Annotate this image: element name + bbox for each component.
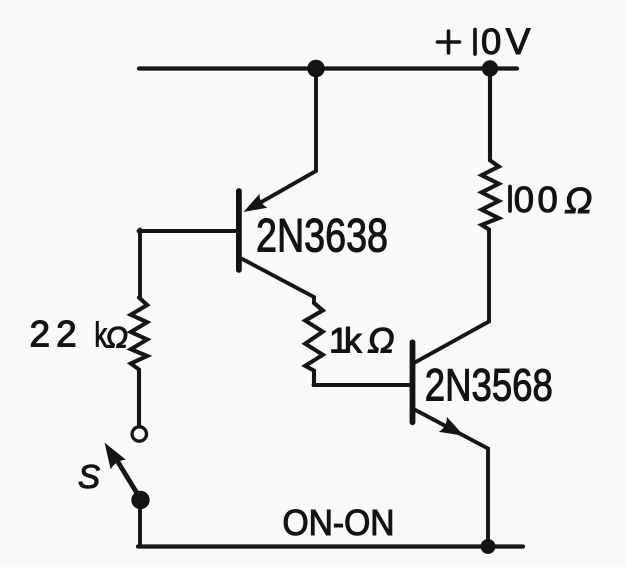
svg-text:Ω: Ω	[106, 322, 128, 355]
svg-text:2N3638: 2N3638	[256, 209, 388, 262]
svg-text:22: 22	[30, 314, 83, 355]
svg-text:S: S	[78, 458, 100, 495]
svg-text:2N3568: 2N3568	[425, 360, 553, 411]
svg-text:00: 00	[514, 179, 561, 220]
svg-text:0: 0	[481, 21, 501, 62]
svg-text:k: k	[344, 321, 362, 361]
svg-text:Ω: Ω	[565, 180, 593, 221]
svg-text:V: V	[506, 21, 531, 62]
svg-text:ON-ON: ON-ON	[283, 502, 395, 543]
svg-text:Ω: Ω	[368, 321, 395, 361]
